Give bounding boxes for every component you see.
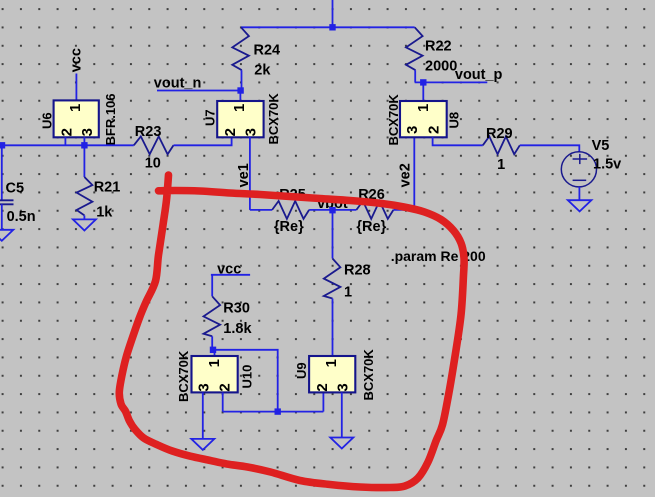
wire vbot drop to R28	[332, 210, 334, 259]
svg-text:R29: R29	[486, 126, 513, 142]
ground C5	[0, 230, 13, 241]
wire C5 top lead	[1, 145, 3, 200]
svg-text:10: 10	[145, 156, 161, 172]
wire top horizontal R24-R22	[241, 26, 415, 28]
wire U9 pin3 to ground	[341, 392, 343, 437]
svg-text:V5: V5	[592, 138, 610, 154]
svg-text:vout_p: vout_p	[455, 67, 503, 83]
svg-text:2: 2	[314, 383, 331, 391]
wire collector to base jumper	[212, 350, 278, 412]
svg-text:2: 2	[59, 128, 76, 136]
svg-text:U6: U6	[40, 112, 55, 129]
node vout_p label wire	[415, 81, 488, 83]
resistor R30	[204, 296, 253, 337]
resistor R29	[483, 126, 520, 173]
wire R28 to U9 pin1	[332, 299, 334, 357]
ground U10	[191, 439, 214, 450]
transistor U6	[40, 93, 118, 145]
wire R30 to U10 pin1	[211, 336, 213, 350]
svg-text:.param Re 200: .param Re 200	[391, 248, 486, 264]
wire top vertical to off-screen	[332, 0, 334, 27]
svg-text:2: 2	[217, 383, 234, 391]
wire vcc to U6 pin1	[75, 74, 77, 101]
wire U7 pin1 stub	[239, 91, 241, 102]
svg-text:3: 3	[195, 383, 212, 391]
svg-text:2000: 2000	[425, 59, 457, 75]
junction U6 pin3	[81, 142, 87, 148]
svg-text:1.5v: 1.5v	[593, 157, 621, 173]
wire vcc bottom label	[211, 275, 250, 297]
wire ve2 vertical	[413, 137, 415, 210]
svg-text:R30: R30	[223, 301, 250, 317]
wire ve1 to R25	[250, 209, 272, 211]
svg-text:3: 3	[243, 128, 260, 136]
svg-text:3: 3	[334, 383, 351, 391]
transistor U9	[294, 349, 376, 401]
svg-text:2: 2	[222, 128, 239, 136]
svg-text:ve2: ve2	[397, 163, 413, 187]
svg-text:1k: 1k	[96, 205, 113, 221]
svg-text:1.8k: 1.8k	[223, 321, 252, 337]
svg-text:C5: C5	[6, 180, 25, 196]
wire U10 pin3 to ground	[202, 392, 204, 439]
wire R21 top lead	[83, 137, 85, 177]
capacitor C5	[0, 180, 36, 225]
resistor R22	[406, 27, 457, 82]
node vout_n label wire	[157, 90, 241, 92]
svg-text:U7: U7	[202, 109, 217, 126]
wire U8 pin1 stub	[422, 82, 424, 101]
wire R25 to R26	[309, 209, 356, 211]
wire C5 bottom lead	[1, 204, 3, 230]
svg-text:R22: R22	[425, 39, 452, 55]
ground R21	[83, 215, 85, 219]
svg-text:1: 1	[323, 359, 340, 367]
svg-text:{Re}: {Re}	[274, 219, 304, 235]
wire R23 to U7	[174, 137, 232, 145]
ground V5	[568, 200, 592, 211]
wire left rail	[0, 144, 134, 146]
wire U6 pin2 drop	[64, 137, 66, 145]
junction base rail	[275, 408, 281, 414]
svg-text:2k: 2k	[254, 63, 271, 79]
junction top tee	[329, 24, 335, 30]
svg-text:0.5n: 0.5n	[7, 209, 36, 225]
svg-text:R21: R21	[94, 180, 121, 196]
svg-text:BCX70K: BCX70K	[176, 350, 191, 402]
junction vout_p	[420, 79, 426, 85]
ground U9	[330, 438, 353, 449]
svg-text:1: 1	[415, 104, 432, 112]
resistor R21	[77, 177, 121, 221]
wire U10 pin1 stub	[214, 350, 216, 356]
svg-text:R23: R23	[135, 124, 162, 140]
wire U8 pin2 to R29	[433, 137, 483, 145]
wire R26 to ve2	[393, 209, 414, 211]
voltage source V5	[561, 138, 621, 187]
svg-text:vout_n: vout_n	[154, 76, 202, 92]
wire R29 to V5	[520, 145, 580, 152]
junction vbot	[329, 207, 335, 213]
wire U10 pin2 stub	[222, 392, 224, 411]
svg-text:3: 3	[79, 128, 96, 136]
wire U9 pin2 stub	[322, 392, 324, 411]
transistor U8	[386, 94, 462, 146]
svg-text:1: 1	[231, 104, 248, 112]
resistor R26	[356, 187, 393, 235]
red annotation loop	[119, 175, 464, 488]
junction C5	[0, 142, 5, 148]
resistor R25	[272, 187, 309, 235]
svg-text:1: 1	[497, 157, 505, 173]
svg-text:U9: U9	[294, 362, 309, 379]
svg-text:3: 3	[404, 126, 421, 134]
svg-text:ve1: ve1	[236, 163, 252, 187]
svg-text:1: 1	[206, 359, 223, 367]
svg-text:2: 2	[425, 126, 442, 134]
wire ve1 vertical	[249, 137, 251, 210]
resistor R23	[134, 124, 174, 172]
junction R30/U10	[210, 347, 216, 353]
svg-text:vcc: vcc	[68, 48, 84, 72]
wire V5 bottom lead	[578, 187, 580, 200]
svg-text:1: 1	[344, 285, 352, 301]
svg-text:1: 1	[67, 104, 84, 112]
wire base rail U10-U9	[223, 411, 324, 413]
svg-text:BCX70K: BCX70K	[266, 93, 281, 145]
resistor R28	[324, 259, 371, 301]
svg-text:BFR.106: BFR.106	[103, 93, 118, 145]
svg-text:R24: R24	[254, 43, 281, 59]
svg-text:{Re}: {Re}	[356, 219, 386, 235]
svg-text:BCX70K: BCX70K	[361, 349, 376, 401]
junction vout_n	[237, 87, 243, 93]
svg-text:U10: U10	[239, 365, 254, 389]
svg-text:U8: U8	[447, 112, 462, 129]
svg-text:BCX70K: BCX70K	[386, 94, 401, 146]
transistor U7	[202, 93, 280, 145]
resistor R24	[232, 27, 280, 90]
transistor U10	[176, 350, 254, 402]
svg-text:R28: R28	[344, 263, 371, 279]
